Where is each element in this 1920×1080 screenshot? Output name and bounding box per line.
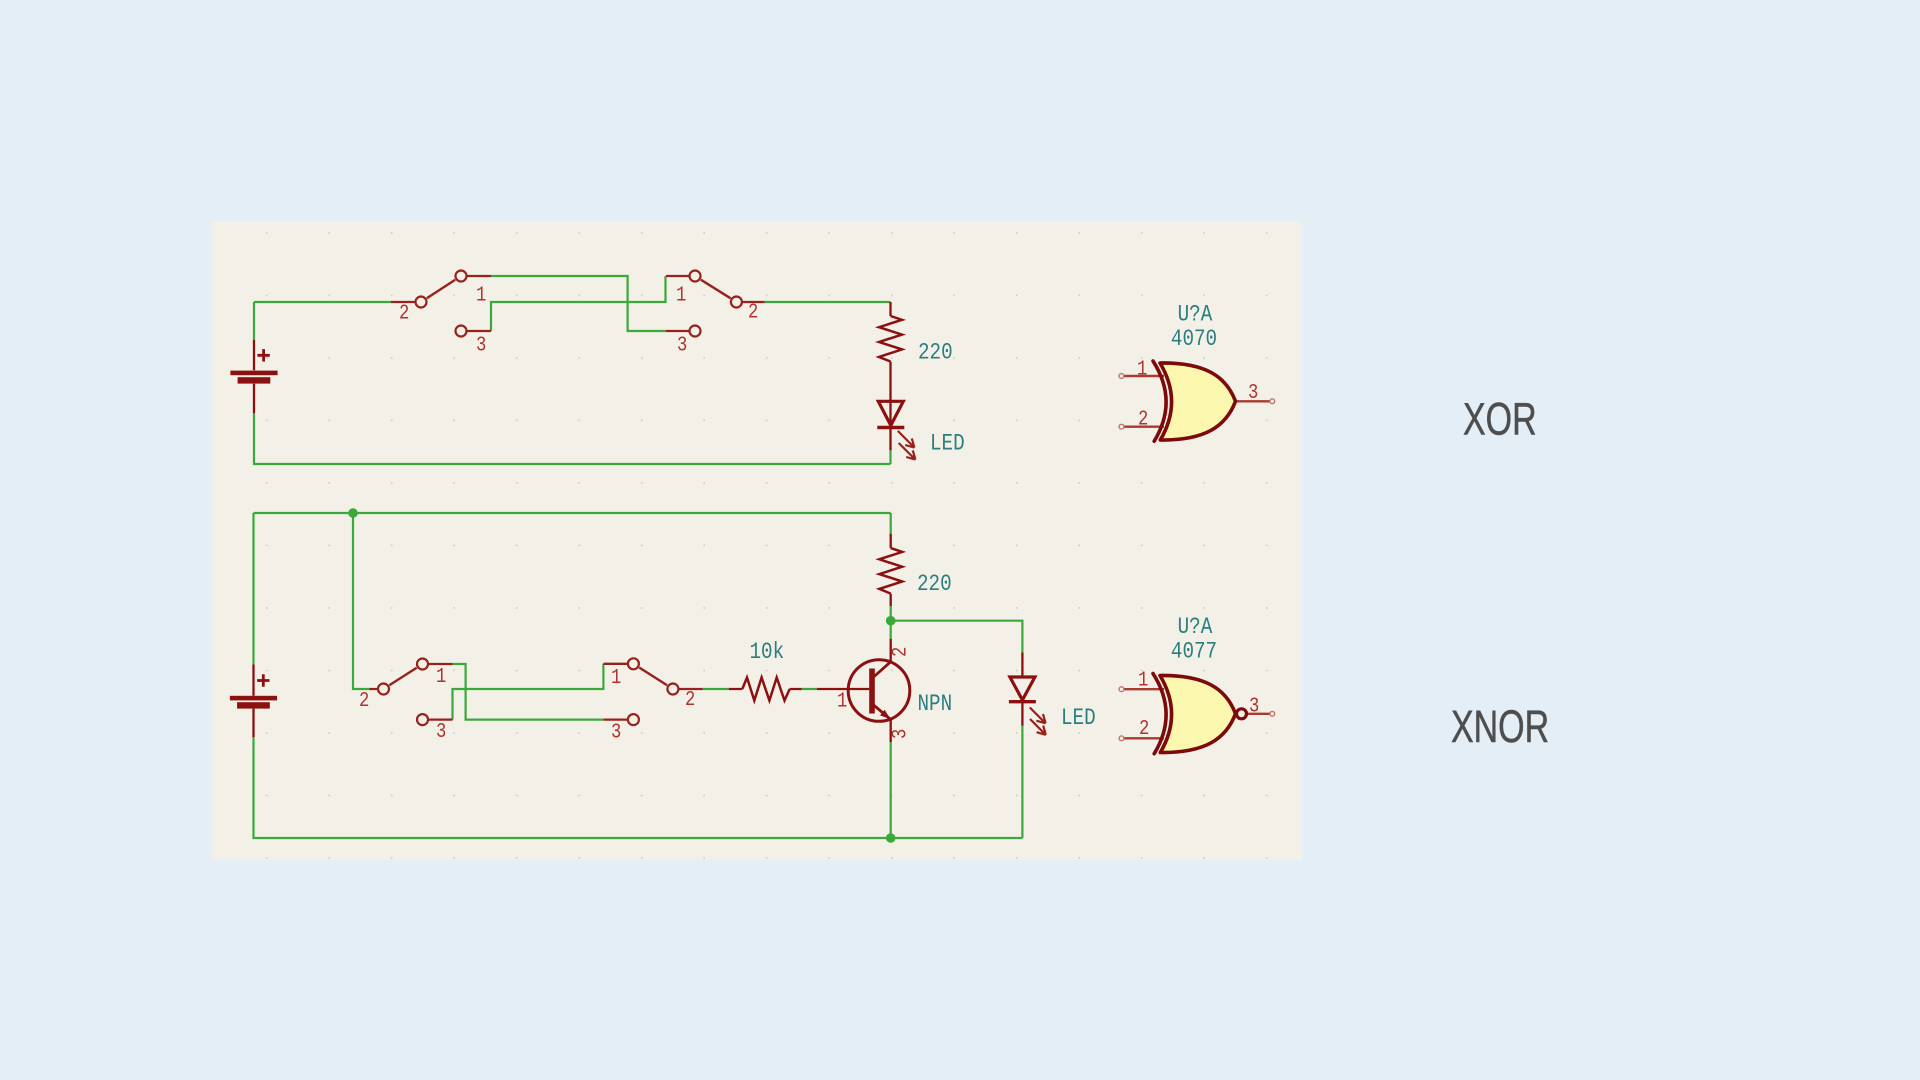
svg-text:220: 220 (917, 571, 952, 597)
svg-text:4077: 4077 (1171, 639, 1217, 665)
svg-text:3: 3 (888, 729, 912, 739)
svg-text:1: 1 (837, 689, 847, 713)
svg-text:3: 3 (436, 720, 446, 744)
svg-text:1: 1 (436, 665, 446, 689)
svg-text:3: 3 (677, 333, 687, 357)
svg-text:220: 220 (918, 340, 953, 366)
svg-text:1: 1 (611, 666, 621, 690)
svg-text:2: 2 (399, 301, 409, 325)
svg-text:3: 3 (1249, 694, 1259, 718)
svg-text:1: 1 (1137, 357, 1147, 381)
svg-text:3: 3 (476, 333, 486, 357)
svg-text:XNOR: XNOR (1451, 702, 1549, 752)
svg-text:3: 3 (1248, 381, 1258, 405)
svg-text:2: 2 (748, 300, 758, 324)
svg-text:3: 3 (611, 720, 621, 744)
svg-text:1: 1 (676, 283, 686, 307)
svg-text:4070: 4070 (1171, 326, 1217, 352)
svg-text:2: 2 (1139, 717, 1149, 741)
svg-text:XOR: XOR (1463, 395, 1537, 445)
svg-text:1: 1 (1138, 668, 1148, 692)
svg-text:2: 2 (888, 647, 912, 657)
svg-text:LED: LED (1061, 705, 1096, 731)
svg-text:2: 2 (359, 689, 369, 713)
svg-text:U?A: U?A (1178, 614, 1213, 640)
svg-text:NPN: NPN (918, 691, 953, 717)
svg-text:U?A: U?A (1178, 302, 1213, 328)
svg-text:1: 1 (476, 283, 486, 307)
svg-text:10k: 10k (750, 639, 785, 665)
svg-text:2: 2 (685, 688, 695, 712)
svg-text:2: 2 (1138, 407, 1148, 431)
svg-text:LED: LED (930, 431, 965, 457)
